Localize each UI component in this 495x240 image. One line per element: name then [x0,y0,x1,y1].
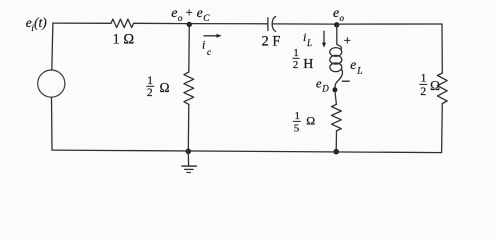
wire node eo+eC to capacitor [189,23,267,25]
svg-text:C: C [203,14,210,24]
svg-text:o: o [178,14,183,24]
svg-text:5: 5 [294,123,300,135]
svg-text:e: e [350,57,356,72]
current arrow i_L (down) [322,31,326,47]
node e_o junction dot [334,22,339,27]
svg-text:i: i [303,30,306,44]
node eo+eC junction dot [187,22,192,27]
wire resistor right to bottom-right corner [441,104,444,153]
svg-text:e: e [197,6,203,21]
svg-text:L: L [356,67,362,77]
wire top-right corner down to resistor [441,24,443,73]
wire node eo+eC down to resistor 1/2 middle [188,24,191,72]
node e_D dot [332,87,337,92]
svg-text:o: o [340,13,345,23]
svg-text:i: i [202,38,205,52]
current arrow i_c [202,34,222,57]
svg-text:2: 2 [147,87,153,99]
resistor 1/2-ohm middle (vertical) [184,72,194,104]
label 1/5 ohm [293,110,315,135]
svg-text:e: e [316,77,322,91]
wire node e_o down to inductor [337,24,342,49]
label e_i(t) [26,15,47,34]
wire top-left corner down to source [52,23,53,70]
node bottom-middle-left dot (ground node) [186,149,192,155]
label i_L [303,30,312,48]
wire top-left horizontal [53,22,111,24]
svg-text:1: 1 [421,73,427,85]
svg-text:Ω: Ω [430,78,440,93]
capacitor C 2F right curved plate [272,16,275,31]
svg-text:2: 2 [420,84,426,98]
svg-text:1: 1 [295,110,301,122]
resistor 1/5-ohm (vertical) [332,104,342,131]
resistor 1/2-ohm right (vertical) [437,73,447,103]
svg-text:D: D [321,84,329,94]
svg-text:1: 1 [293,47,299,59]
label 1/2 H [292,47,313,72]
svg-text:2 F: 2 F [262,33,281,49]
label e_L [350,57,362,77]
svg-text:+: + [344,33,351,48]
svg-text:1: 1 [147,75,153,87]
resistor R1 1-ohm (horizontal) [111,19,134,28]
svg-text:c: c [207,47,211,57]
label 1/2 ohm right [419,73,440,99]
svg-text:e: e [333,6,339,21]
svg-text:H: H [303,57,313,72]
wire resistor 1/2 middle to bottom node [187,104,190,151]
wire bottom horizontal [52,150,442,153]
wire resistor 1/5 to bottom node [335,131,337,152]
svg-text:2: 2 [293,59,299,71]
source circle e_i [38,70,65,97]
svg-text:L: L [306,38,312,48]
label e_o [333,6,345,23]
polarity minus (inductor bottom) [342,80,350,82]
label e_o + e_C [171,5,210,24]
wire capacitor to node e_o [273,23,337,25]
capacitor C 2F left plate [267,17,269,31]
svg-text:(t): (t) [34,15,47,30]
wire source to bottom-left corner [51,97,54,150]
svg-text:1 Ω: 1 Ω [113,32,135,48]
svg-text:Ω: Ω [160,80,170,95]
node bottom-middle-right dot [333,149,339,155]
svg-text:+: + [186,5,193,19]
label 1/2 ohm middle [146,75,169,99]
svg-text:e: e [171,6,177,21]
wire R1 to node eo+eC [134,22,190,24]
wire node e_o to top-right corner [337,23,442,25]
label e_D [316,77,329,94]
svg-text:Ω: Ω [306,113,315,127]
ground symbol [181,151,197,172]
wire e_D node to resistor 1/5 [335,92,336,105]
inductor L 1/2 H coil [330,48,343,89]
